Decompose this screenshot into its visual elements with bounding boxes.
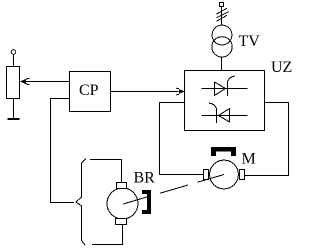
- pot bottom terminal bar: [8, 118, 20, 120]
- wire CP to potentiometer wiper: [21, 81, 70, 83]
- wire UZ right to motor right brush: [245, 103, 289, 176]
- machine BR top brush: [117, 183, 127, 189]
- block CP: [70, 72, 111, 112]
- potentiometer RP terminal circle: [11, 50, 16, 55]
- svg-text:M: M: [242, 151, 256, 168]
- wire pot terminal to resistor body: [13, 55, 15, 67]
- wire transformer to UZ: [221, 57, 223, 70]
- thyristor VS2 cathode bar: [216, 108, 218, 123]
- TV supply terminal square: [220, 3, 224, 7]
- shaft coupling dashed line: [123, 175, 224, 205]
- wire UZ left to motor left brush: [160, 103, 204, 175]
- wire CP to UZ: [111, 91, 179, 93]
- svg-text:TV: TV: [239, 33, 261, 50]
- brace joining BR terminals: [76, 159, 86, 246]
- motor M right brush: [240, 170, 245, 180]
- machine BR bottom brush: [116, 219, 127, 225]
- motor M left brush: [204, 170, 209, 180]
- wire terminal to transformer: [221, 7, 223, 26]
- block UZ rectifier: [185, 71, 265, 131]
- wire CP left down to brace: [51, 99, 75, 203]
- machine BR field winding symbol: [142, 190, 151, 214]
- thyristor VS1 lead line: [202, 88, 248, 90]
- thyristor VS2 triangle: [219, 109, 230, 122]
- motor M armature circle: [210, 160, 239, 189]
- thyristor VS1 cathode bar: [227, 81, 229, 96]
- svg-text:CP: CP: [79, 82, 99, 99]
- thyristor VS1 triangle: [215, 82, 226, 95]
- thyristor VS1 gate: [228, 76, 236, 82]
- transformer TV secondary circle: [212, 37, 232, 57]
- arrowhead at UZ input: [179, 89, 185, 94]
- svg-text:UZ: UZ: [271, 59, 292, 76]
- potentiometer RP body: [7, 67, 20, 99]
- motor M field winding symbol: [211, 147, 236, 156]
- wire brace bottom to BR bottom brush: [92, 225, 123, 245]
- thyristor VS2 lead line: [202, 115, 248, 117]
- machine BR armature circle: [107, 188, 138, 219]
- transformer TV primary circle: [212, 25, 232, 45]
- three-phase slashes: [217, 8, 229, 21]
- wire brace top to BR top brush: [90, 160, 122, 183]
- thyristor VS2 gate: [209, 103, 217, 108]
- wire pot bottom lead: [13, 99, 15, 119]
- wiper arrowhead at potentiometer: [20, 79, 26, 84]
- svg-text:BR: BR: [134, 170, 156, 187]
